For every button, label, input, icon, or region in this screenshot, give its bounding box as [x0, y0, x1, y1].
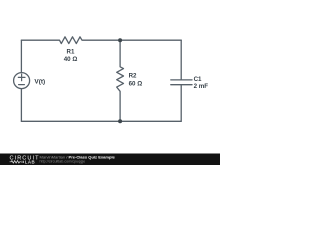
svg-text:2 mF: 2 mF: [194, 83, 209, 90]
svg-text:LAB: LAB: [25, 160, 35, 165]
svg-text:R1: R1: [67, 49, 75, 56]
svg-text:R2: R2: [129, 73, 137, 80]
svg-text:V(t): V(t): [34, 79, 45, 86]
svg-text:http://circuitlab.com/cpuqgje: http://circuitlab.com/cpuqgje: [40, 160, 86, 164]
svg-text:60 Ω: 60 Ω: [129, 81, 143, 88]
svg-text:40 Ω: 40 Ω: [64, 56, 78, 63]
